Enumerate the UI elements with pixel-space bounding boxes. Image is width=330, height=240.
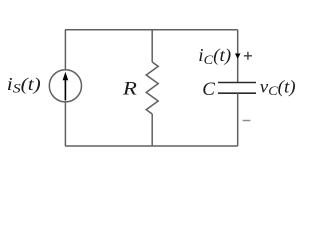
svg-text:iS(t): iS(t) bbox=[7, 74, 41, 96]
svg-text:C: C bbox=[202, 79, 215, 100]
current source arrow bbox=[63, 72, 69, 101]
capacitor C top plate bbox=[218, 82, 256, 84]
plus sign bbox=[244, 52, 252, 60]
wire middle branch top bbox=[151, 30, 153, 62]
current source IS circle bbox=[49, 70, 81, 102]
wire right-bottom bbox=[237, 93, 239, 146]
svg-text:vC(t): vC(t) bbox=[260, 76, 296, 98]
wire bottom bbox=[65, 145, 238, 147]
wire middle branch bottom bbox=[151, 114, 153, 146]
svg-text:iC(t): iC(t) bbox=[198, 45, 231, 67]
wire left-bottom bbox=[64, 102, 66, 146]
resistor R zigzag bbox=[146, 62, 158, 114]
wire right-top bbox=[237, 30, 239, 82]
svg-text:R: R bbox=[122, 79, 138, 100]
current iC arrowhead bbox=[235, 54, 241, 59]
capacitor C bottom plate bbox=[218, 92, 256, 94]
wire top bbox=[65, 29, 238, 31]
minus sign bbox=[243, 120, 251, 122]
wire left-top bbox=[64, 30, 66, 70]
